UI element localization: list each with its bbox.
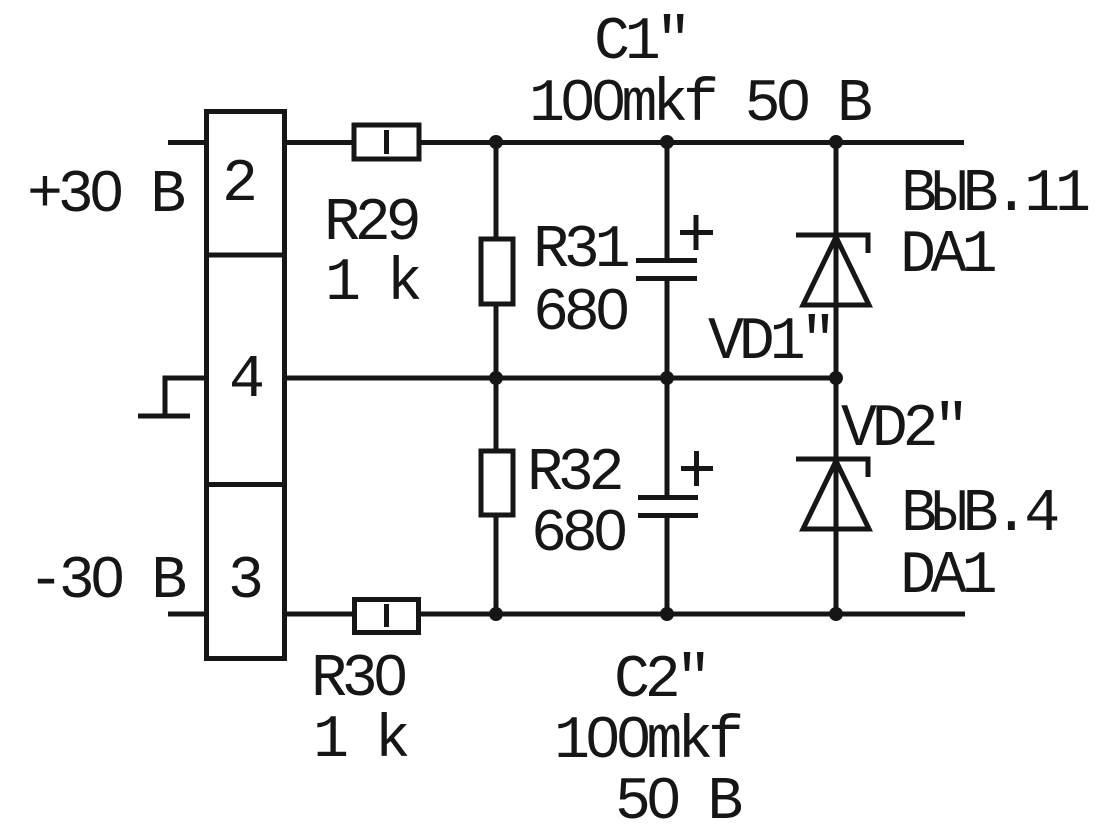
- block divider 4/3: [204, 482, 287, 487]
- zener diode VD2: [796, 459, 869, 529]
- node dot top diode column: [829, 135, 843, 149]
- capacitor C1: [636, 215, 713, 279]
- node dot middle diode column: [829, 371, 843, 385]
- wire capacitor column vertical top: [665, 140, 670, 261]
- svg-text:4: 4: [229, 347, 262, 415]
- wire diode column vertical: [834, 140, 839, 614]
- svg-text:DA1: DA1: [900, 543, 996, 611]
- wire capacitor column vertical bottom: [665, 516, 670, 614]
- svg-text:100mkf: 100mkf: [554, 708, 741, 776]
- resistor R31: [481, 239, 513, 304]
- wire R31 column vertical: [494, 140, 499, 614]
- wire top rail block to R29: [287, 140, 353, 145]
- node dot bottom R30 column: [489, 607, 503, 621]
- block divider 2/4: [204, 253, 287, 258]
- wire middle rail: [287, 376, 839, 381]
- svg-text:C2": C2": [614, 647, 706, 715]
- svg-text:R31: R31: [533, 217, 629, 285]
- wire bottom rail block to R30: [287, 612, 353, 617]
- capacitor C2: [638, 451, 713, 516]
- svg-text:R32: R32: [527, 440, 621, 508]
- svg-text:1 k: 1 k: [325, 250, 420, 318]
- wire -30V left stub: [168, 612, 206, 617]
- connector block X1: [207, 112, 285, 659]
- wire capacitor column vertical middle: [665, 279, 670, 498]
- zero glyph dot covers (font fixup): [101, 184, 112, 197]
- svg-text:3: 3: [228, 548, 261, 616]
- node dot middle capacitor column: [660, 371, 674, 385]
- node dot top capacitor column: [660, 135, 674, 149]
- svg-text:ВЫВ.11: ВЫВ.11: [901, 161, 1089, 229]
- wire bottom rail R30 to right end: [419, 612, 965, 617]
- node dot bottom diode column: [829, 607, 843, 621]
- wire top rail R29 to right end: [420, 140, 964, 145]
- svg-text:DA1: DA1: [900, 222, 996, 290]
- resistor R32: [481, 451, 513, 515]
- svg-text:VD2": VD2": [841, 396, 964, 464]
- ground: [138, 414, 190, 419]
- zener diode VD1: [796, 235, 869, 305]
- svg-text:R29: R29: [324, 190, 418, 258]
- node dot middle R31 column: [489, 371, 503, 385]
- svg-text:ВЫВ.4: ВЫВ.4: [901, 481, 1057, 549]
- svg-text:VD1": VD1": [708, 309, 831, 377]
- ground wire from pin 4: [165, 378, 206, 416]
- wire +30V left stub: [168, 140, 206, 145]
- svg-text:1 k: 1 k: [313, 707, 408, 775]
- svg-text:2: 2: [222, 151, 254, 219]
- resistor R29: [354, 125, 419, 159]
- node dot bottom capacitor column: [660, 607, 674, 621]
- svg-text:50 В: 50 В: [615, 769, 741, 826]
- svg-text:C1": C1": [594, 9, 686, 77]
- node dot top R31 column: [489, 135, 503, 149]
- resistor R30: [355, 600, 419, 633]
